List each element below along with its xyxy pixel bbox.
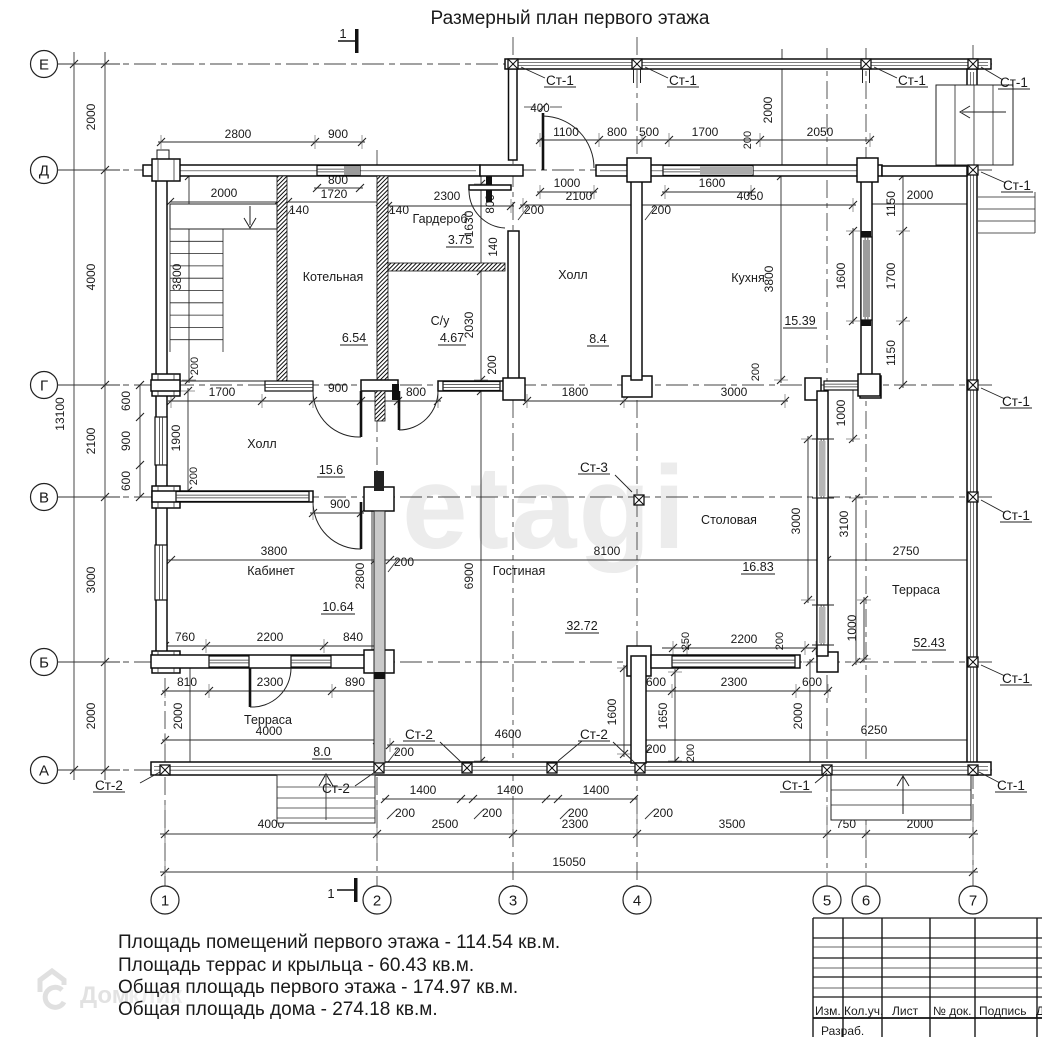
svg-text:Д: Д	[1036, 1004, 1042, 1018]
svg-text:200: 200	[487, 355, 499, 374]
svg-text:Разраб.: Разраб.	[821, 1024, 864, 1037]
svg-text:6900: 6900	[462, 562, 476, 589]
svg-text:15.6: 15.6	[319, 463, 343, 477]
svg-text:Холл: Холл	[558, 268, 587, 282]
svg-text:Общая площадь первого этажа -: Общая площадь первого этажа - 174.97 кв.…	[118, 977, 518, 998]
svg-text:Ст-1: Ст-1	[1003, 178, 1031, 193]
svg-text:2300: 2300	[721, 675, 748, 689]
svg-text:Ст-2: Ст-2	[580, 727, 608, 742]
svg-text:13100: 13100	[53, 397, 67, 431]
svg-text:6.54: 6.54	[342, 331, 366, 345]
svg-text:Б: Б	[39, 655, 49, 672]
svg-text:200: 200	[750, 363, 762, 381]
svg-text:Д: Д	[39, 163, 49, 180]
svg-text:2300: 2300	[434, 189, 461, 203]
svg-text:Терраса: Терраса	[244, 713, 292, 727]
svg-text:Ст-2: Ст-2	[405, 727, 433, 742]
svg-text:15050: 15050	[552, 855, 586, 869]
svg-text:200: 200	[395, 806, 415, 820]
svg-text:1720: 1720	[321, 187, 348, 201]
svg-text:200: 200	[646, 742, 666, 756]
svg-text:Гостиная: Гостиная	[493, 564, 545, 578]
svg-text:1600: 1600	[699, 176, 726, 190]
svg-text:200: 200	[651, 203, 671, 217]
svg-text:5: 5	[823, 893, 831, 910]
svg-text:200: 200	[774, 632, 786, 650]
svg-text:140: 140	[389, 203, 409, 217]
svg-text:200: 200	[394, 745, 414, 759]
svg-text:2000: 2000	[791, 702, 805, 729]
svg-text:760: 760	[175, 630, 195, 644]
svg-text:2000: 2000	[211, 186, 238, 200]
svg-text:2000: 2000	[84, 103, 98, 130]
svg-text:3.75: 3.75	[448, 233, 472, 247]
svg-text:2000: 2000	[761, 96, 775, 123]
svg-text:3000: 3000	[789, 507, 803, 534]
svg-text:2050: 2050	[807, 125, 834, 139]
svg-text:1: 1	[339, 26, 346, 41]
svg-text:1: 1	[161, 893, 169, 910]
svg-text:1700: 1700	[692, 125, 719, 139]
svg-text:500: 500	[639, 125, 659, 139]
svg-text:250: 250	[680, 632, 692, 650]
svg-text:1150: 1150	[884, 191, 898, 217]
svg-text:200: 200	[685, 744, 697, 762]
svg-text:1400: 1400	[583, 783, 610, 797]
svg-text:32.72: 32.72	[566, 619, 597, 633]
svg-text:6250: 6250	[861, 723, 888, 737]
svg-text:Кабинет: Кабинет	[247, 564, 295, 578]
svg-text:Холл: Холл	[247, 437, 276, 451]
svg-text:8.4: 8.4	[589, 332, 606, 346]
svg-text:2500: 2500	[432, 817, 459, 831]
svg-text:Котельная: Котельная	[303, 270, 364, 284]
svg-text:3000: 3000	[721, 385, 748, 399]
svg-text:52.43: 52.43	[913, 636, 944, 650]
svg-text:С/у: С/у	[431, 314, 451, 328]
svg-text:900: 900	[119, 431, 133, 451]
svg-text:2000: 2000	[907, 188, 934, 202]
svg-text:1000: 1000	[834, 399, 848, 426]
svg-text:3100: 3100	[837, 510, 851, 537]
svg-text:В: В	[39, 490, 49, 507]
svg-text:Лист: Лист	[892, 1004, 919, 1018]
svg-text:1600: 1600	[605, 698, 619, 725]
svg-text:3000: 3000	[84, 566, 98, 593]
svg-text:840: 840	[343, 630, 363, 644]
svg-text:140: 140	[289, 203, 309, 217]
svg-text:800: 800	[406, 385, 426, 399]
svg-text:2200: 2200	[731, 632, 758, 646]
svg-text:Ст-1: Ст-1	[1002, 671, 1030, 686]
svg-text:Ст-1: Ст-1	[1002, 394, 1030, 409]
svg-text:А: А	[39, 763, 49, 780]
svg-text:8.0: 8.0	[313, 745, 330, 759]
svg-text:3800: 3800	[170, 263, 184, 290]
svg-text:200: 200	[394, 555, 414, 569]
svg-text:Ст-2: Ст-2	[322, 781, 350, 796]
svg-text:Площадь террас и крыльца - 60: Площадь террас и крыльца - 60.43 кв.м.	[118, 955, 474, 976]
svg-text:Ст-1: Ст-1	[782, 778, 810, 793]
svg-text:8100: 8100	[594, 544, 621, 558]
svg-text:2200: 2200	[257, 630, 284, 644]
svg-text:1700: 1700	[209, 385, 236, 399]
svg-text:200: 200	[653, 806, 673, 820]
svg-text:2750: 2750	[893, 544, 920, 558]
svg-text:200: 200	[482, 806, 502, 820]
svg-text:Ст-3: Ст-3	[580, 460, 608, 475]
svg-text:etagi: etagi	[402, 442, 687, 574]
svg-text:1800: 1800	[562, 385, 589, 399]
svg-text:140: 140	[488, 237, 500, 256]
svg-text:Размерный план первого этажа: Размерный план первого этажа	[431, 8, 710, 29]
svg-text:600: 600	[119, 391, 133, 411]
svg-text:4050: 4050	[737, 189, 764, 203]
svg-text:2: 2	[373, 893, 381, 910]
svg-text:6: 6	[862, 893, 870, 910]
svg-text:800: 800	[607, 125, 627, 139]
svg-text:Общая площадь дома - 274.18 кв: Общая площадь дома - 274.18 кв.м.	[118, 999, 438, 1020]
svg-text:1100: 1100	[553, 125, 579, 139]
svg-text:Подпись: Подпись	[979, 1004, 1027, 1018]
svg-text:600: 600	[119, 471, 133, 491]
svg-text:200: 200	[188, 467, 200, 485]
svg-text:1000: 1000	[845, 614, 859, 641]
svg-text:2300: 2300	[562, 817, 589, 831]
svg-text:2300: 2300	[257, 675, 284, 689]
svg-text:Г: Г	[40, 378, 48, 395]
svg-text:3: 3	[509, 893, 517, 910]
svg-text:15.39: 15.39	[784, 314, 815, 328]
svg-text:4600: 4600	[495, 727, 522, 741]
svg-text:Ст-1: Ст-1	[1002, 508, 1030, 523]
svg-text:3500: 3500	[719, 817, 746, 831]
svg-text:2000: 2000	[84, 702, 98, 729]
svg-text:1400: 1400	[410, 783, 437, 797]
svg-text:1400: 1400	[497, 783, 524, 797]
svg-text:Столовая: Столовая	[701, 513, 757, 527]
svg-text:Площадь помещений первого этаж: Площадь помещений первого этажа - 114.54…	[118, 932, 560, 953]
svg-text:№ док.: № док.	[933, 1004, 971, 1018]
svg-text:Изм.: Изм.	[815, 1004, 841, 1018]
svg-text:1700: 1700	[884, 262, 898, 289]
svg-text:Ст-1: Ст-1	[898, 73, 926, 88]
svg-text:4000: 4000	[84, 263, 98, 290]
svg-text:Ст-1: Ст-1	[546, 73, 574, 88]
svg-text:Гардероб: Гардероб	[413, 212, 468, 226]
svg-text:900: 900	[328, 127, 348, 141]
svg-text:7: 7	[969, 893, 977, 910]
svg-text:600: 600	[802, 675, 822, 689]
svg-text:Кол.уч.: Кол.уч.	[844, 1004, 883, 1018]
svg-text:Терраса: Терраса	[892, 583, 940, 597]
svg-text:Ст-1: Ст-1	[997, 778, 1025, 793]
svg-text:1: 1	[327, 886, 334, 901]
svg-text:Ст-1: Ст-1	[669, 73, 697, 88]
svg-text:1150: 1150	[884, 340, 898, 366]
svg-text:200: 200	[742, 131, 754, 149]
svg-text:10.64: 10.64	[322, 600, 353, 614]
svg-text:4: 4	[633, 893, 641, 910]
svg-text:2800: 2800	[353, 562, 367, 589]
svg-text:200: 200	[189, 357, 201, 375]
svg-text:900: 900	[330, 497, 350, 511]
svg-text:4.67: 4.67	[440, 331, 464, 345]
svg-text:900: 900	[328, 381, 348, 395]
svg-text:400: 400	[530, 103, 549, 115]
svg-text:600: 600	[646, 675, 666, 689]
svg-text:1000: 1000	[554, 176, 581, 190]
svg-text:1900: 1900	[169, 424, 183, 451]
svg-text:3800: 3800	[261, 544, 288, 558]
svg-text:2100: 2100	[566, 189, 593, 203]
svg-text:810: 810	[177, 675, 197, 689]
svg-text:890: 890	[345, 675, 365, 689]
svg-text:2100: 2100	[84, 427, 98, 454]
svg-text:Ст-2: Ст-2	[95, 778, 123, 793]
svg-text:1650: 1650	[656, 702, 670, 729]
svg-text:2800: 2800	[225, 127, 252, 141]
svg-text:Кухня: Кухня	[731, 271, 764, 285]
svg-text:2000: 2000	[171, 702, 185, 729]
svg-text:200: 200	[524, 203, 544, 217]
svg-text:1600: 1600	[834, 262, 848, 289]
svg-text:16.83: 16.83	[742, 560, 773, 574]
svg-text:Ст-1: Ст-1	[1000, 75, 1028, 90]
svg-text:Е: Е	[39, 57, 49, 74]
